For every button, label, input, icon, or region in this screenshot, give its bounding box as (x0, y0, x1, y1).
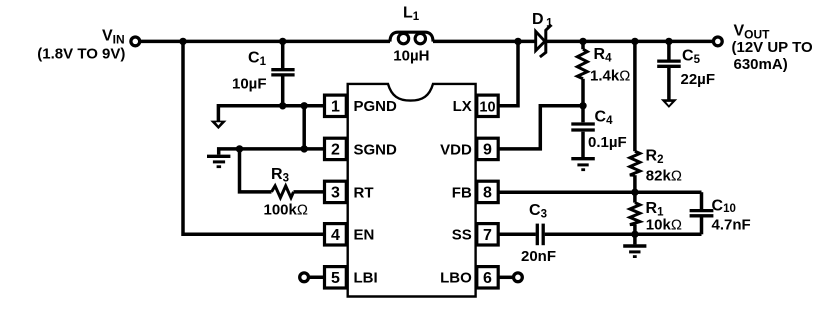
svg-text:VDD: VDD (440, 141, 472, 158)
svg-text:630mA): 630mA) (734, 56, 788, 73)
svg-text:22µF: 22µF (681, 71, 716, 88)
svg-text:10: 10 (479, 100, 495, 116)
svg-text:LBI: LBI (354, 270, 378, 287)
svg-text:9: 9 (483, 142, 492, 159)
svg-text:0.1µF: 0.1µF (588, 134, 627, 151)
svg-text:4: 4 (331, 227, 340, 244)
svg-text:2: 2 (331, 142, 340, 159)
svg-text:PGND: PGND (354, 98, 398, 115)
svg-text:100kΩ: 100kΩ (264, 202, 308, 219)
svg-text:5: 5 (331, 270, 340, 287)
svg-text:(1.8V TO 9V): (1.8V TO 9V) (37, 45, 125, 62)
svg-text:82kΩ: 82kΩ (646, 167, 682, 184)
svg-text:3: 3 (331, 185, 340, 202)
svg-text:EN: EN (354, 227, 375, 244)
svg-text:SS: SS (452, 227, 472, 244)
svg-text:6: 6 (483, 270, 492, 287)
svg-text:10µH: 10µH (393, 47, 429, 64)
svg-text:LX: LX (453, 98, 472, 115)
svg-text:4.7nF: 4.7nF (712, 216, 751, 233)
svg-text:RT: RT (354, 184, 374, 201)
svg-text:SGND: SGND (354, 141, 398, 158)
svg-text:1: 1 (331, 99, 340, 116)
svg-text:10kΩ: 10kΩ (646, 216, 682, 233)
svg-text:10µF: 10µF (232, 75, 267, 92)
svg-text:LBO: LBO (440, 270, 472, 287)
svg-text:FB: FB (452, 184, 472, 201)
svg-text:(12V UP TO: (12V UP TO (732, 39, 813, 56)
svg-text:1.4kΩ: 1.4kΩ (590, 67, 630, 84)
svg-text:7: 7 (483, 227, 492, 244)
svg-text:20nF: 20nF (521, 248, 556, 265)
svg-text:8: 8 (483, 185, 492, 202)
